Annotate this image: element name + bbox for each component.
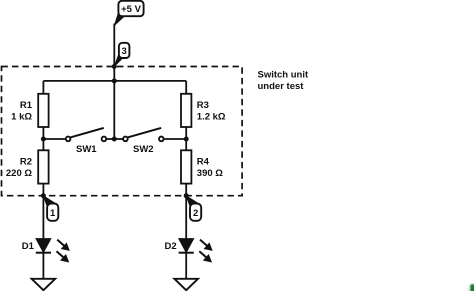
corner watermark (green) [466, 284, 474, 291]
wire: right branch top stub [185, 81, 187, 94]
svg-text:SW2: SW2 [133, 144, 154, 155]
ground (D2) [174, 279, 198, 290]
svg-text:R2: R2 [20, 156, 32, 167]
node: bottom dashed border left (pin 1) [41, 193, 46, 198]
node: junction dot on top dashed border (pin 3) [112, 64, 117, 69]
svg-text:220 Ω: 220 Ω [6, 168, 32, 179]
wire: R4 down to D2 [185, 184, 187, 240]
svg-text:R4: R4 [197, 156, 210, 167]
resistor R2 [38, 150, 48, 183]
switch SW1 [66, 137, 71, 142]
node: center switch common [112, 137, 117, 142]
svg-text:D2: D2 [165, 241, 177, 252]
wire: R2 down to D1 [42, 184, 44, 240]
wire: R1 to node [42, 127, 44, 151]
svg-text:D1: D1 [22, 241, 35, 252]
LED D2 emission arrows [199, 240, 212, 262]
resistor R4 [181, 150, 191, 183]
wire: D2 cathode to ground [185, 253, 187, 279]
svg-text:+5 V: +5 V [121, 4, 141, 15]
node: right R3/R4/SW2 [184, 137, 189, 142]
switch SW2 [114, 138, 123, 140]
svg-text:R1: R1 [20, 100, 33, 111]
wire: left branch top stub [42, 81, 44, 94]
pin label 1 [44, 196, 59, 221]
node: left R1/R2/SW1 [41, 137, 46, 142]
LED D2 [179, 239, 213, 262]
svg-text:390 Ω: 390 Ω [197, 168, 223, 179]
resistor R3 [181, 94, 191, 127]
resistor R1 [38, 94, 48, 127]
pin label 2 [186, 196, 201, 221]
svg-text:3: 3 [122, 46, 127, 57]
power callout +5 V [115, 1, 144, 25]
node: junction top rail [112, 78, 117, 83]
ground (D1) [32, 279, 56, 290]
pin label 3 [114, 43, 129, 67]
dashed enclosure: switch unit under test [2, 67, 243, 196]
wire: top rail [43, 80, 186, 82]
svg-text:under test: under test [258, 81, 305, 92]
wire: +5V feed down to switch row [113, 24, 115, 140]
svg-text:R3: R3 [197, 100, 209, 111]
svg-text:2: 2 [193, 208, 198, 219]
LED D1 [36, 239, 70, 262]
node: bottom dashed border right (pin 2) [184, 193, 189, 198]
svg-text:1: 1 [50, 208, 56, 219]
svg-text:1.2 kΩ: 1.2 kΩ [197, 112, 226, 123]
wire: R3 to node [185, 127, 187, 151]
svg-text:Switch unit: Switch unit [258, 70, 310, 81]
wire: D1 cathode to ground [42, 253, 44, 279]
wire: left node to SW1 [43, 138, 65, 140]
svg-text:SW1: SW1 [76, 144, 97, 155]
svg-text:1 kΩ: 1 kΩ [11, 112, 32, 123]
LED D1 emission arrows [57, 240, 70, 262]
